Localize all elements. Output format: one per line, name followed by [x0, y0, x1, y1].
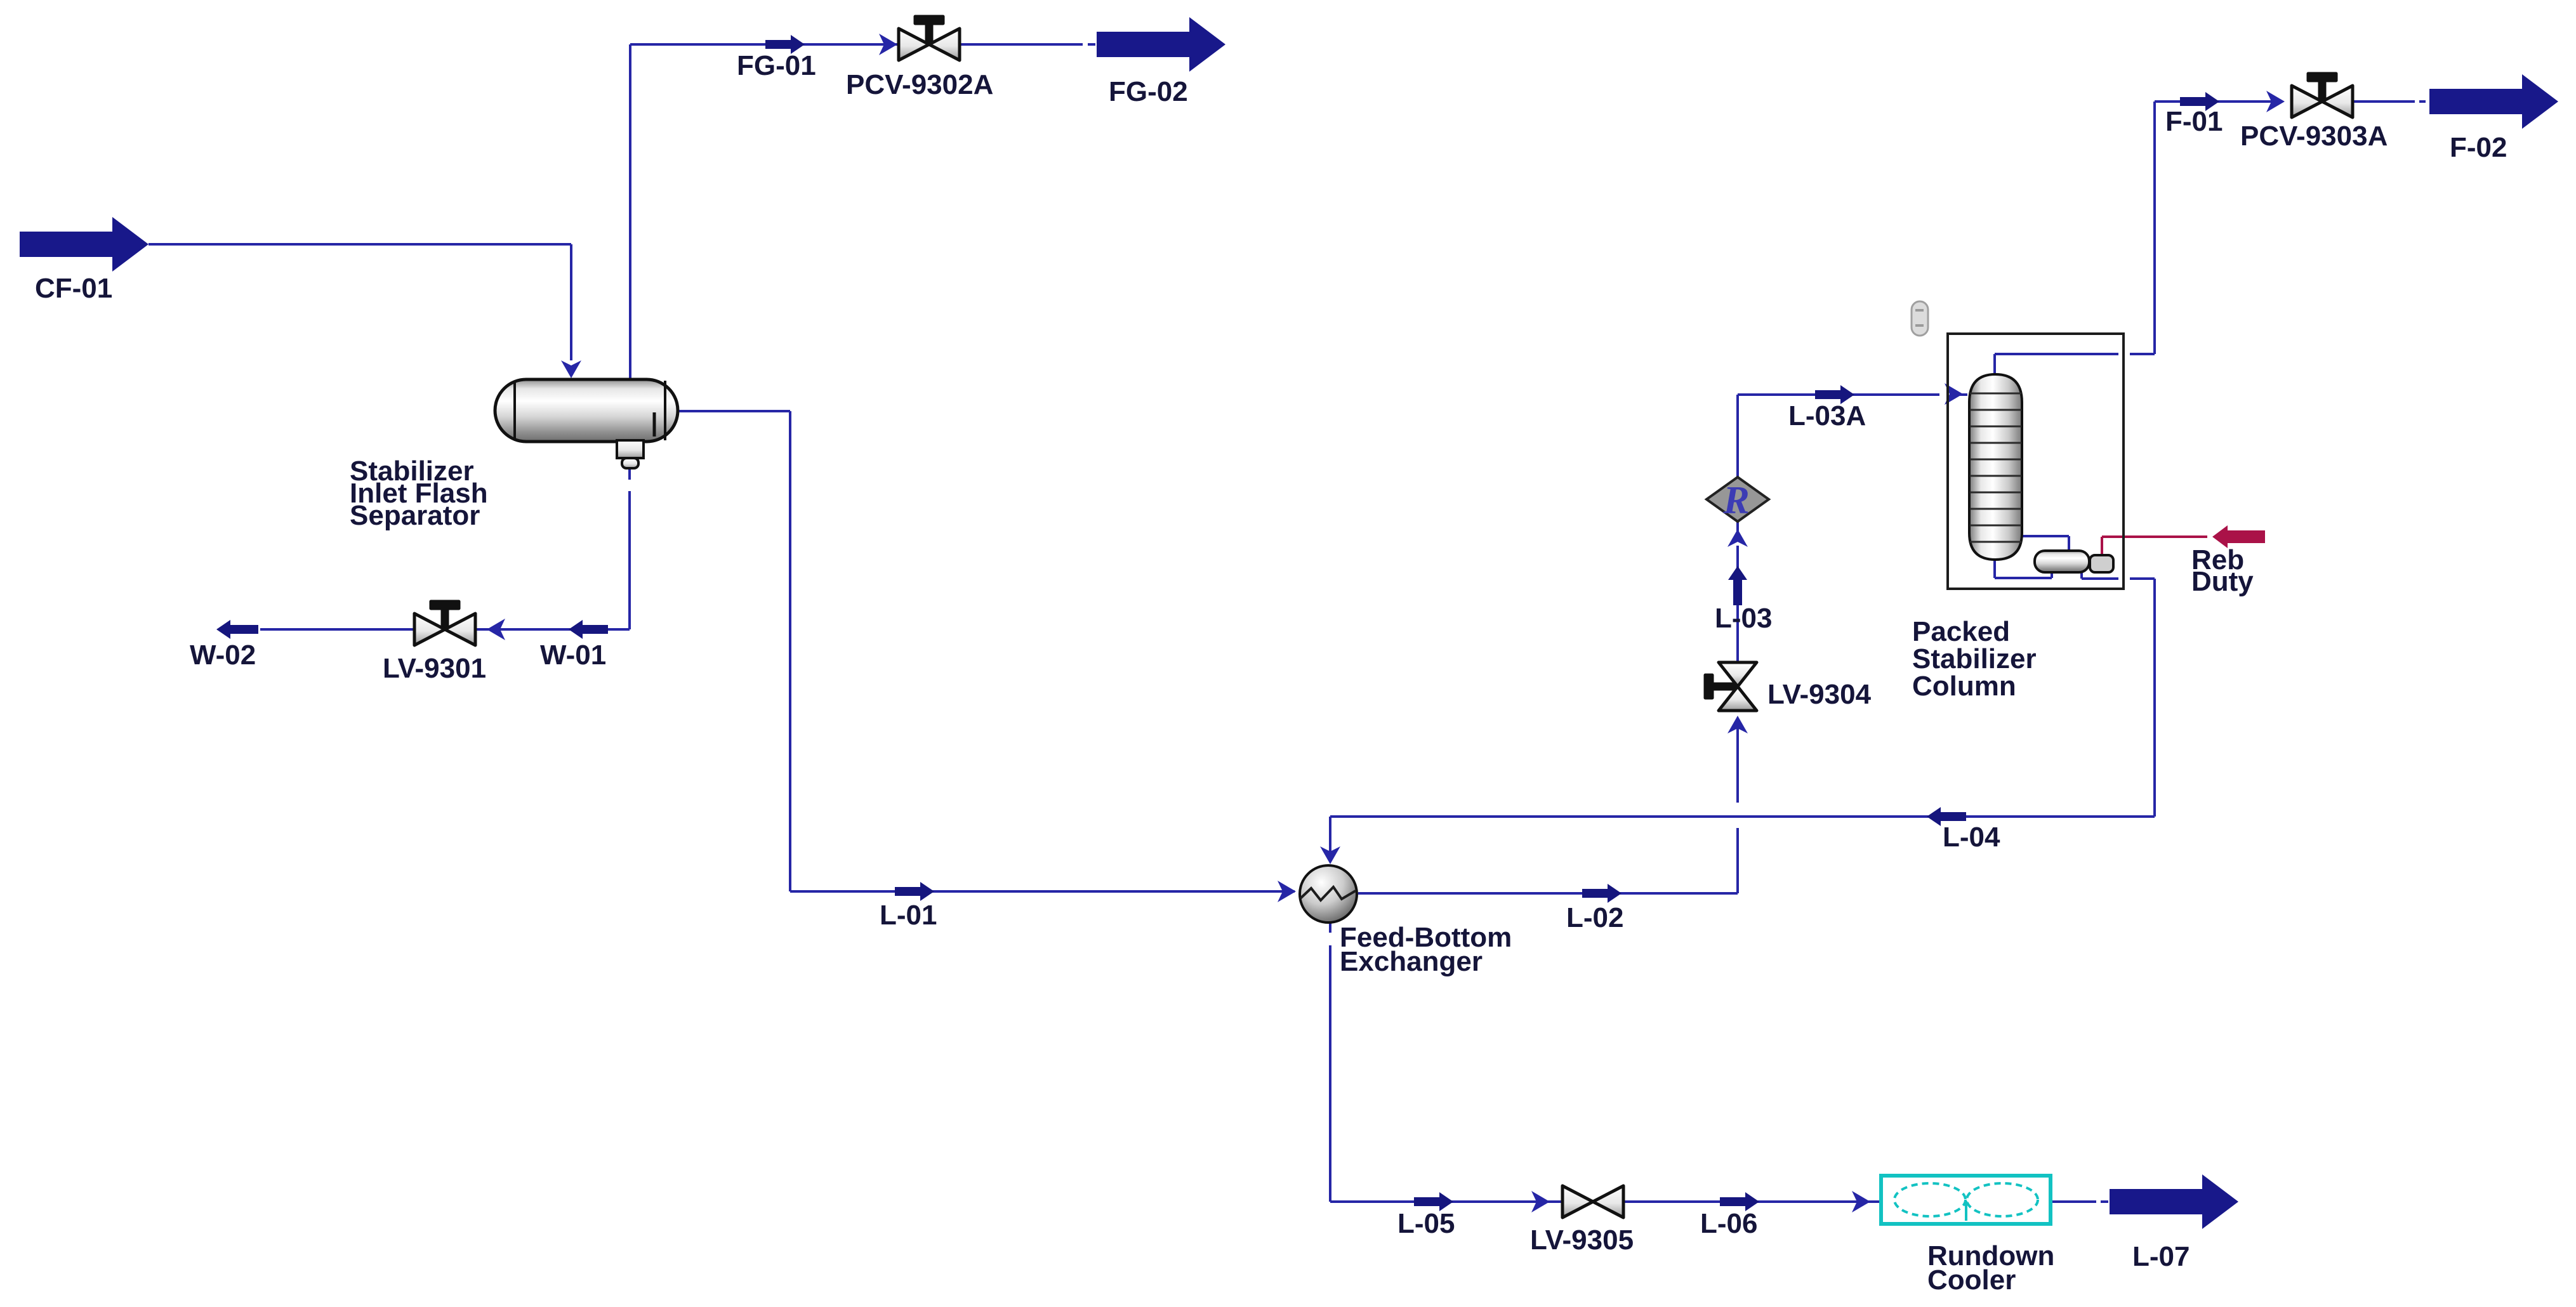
svg-text:Packed: Packed [1912, 616, 2010, 647]
svg-text:PCV-9303A: PCV-9303A [2240, 121, 2388, 152]
svg-text:Stabilizer: Stabilizer [1912, 643, 2037, 674]
svg-text:W-01: W-01 [540, 640, 606, 671]
svg-text:L-01: L-01 [880, 900, 937, 931]
svg-text:Separator: Separator [350, 500, 480, 531]
svg-text:L-02: L-02 [1566, 902, 1623, 933]
svg-text:R: R [1722, 479, 1749, 522]
svg-text:FG-02: FG-02 [1109, 76, 1188, 107]
svg-text:L-03A: L-03A [1788, 400, 1866, 431]
svg-text:CF-01: CF-01 [35, 273, 112, 304]
svg-text:L-07: L-07 [2132, 1241, 2190, 1272]
svg-text:LV-9304: LV-9304 [1767, 679, 1872, 710]
svg-text:L-05: L-05 [1397, 1208, 1455, 1239]
svg-text:LV-9301: LV-9301 [383, 653, 486, 684]
svg-text:PCV-9302A: PCV-9302A [846, 69, 993, 100]
svg-text:Column: Column [1912, 671, 2016, 702]
svg-text:Duty: Duty [2191, 566, 2254, 597]
svg-text:LV-9305: LV-9305 [1530, 1225, 1634, 1256]
svg-text:L-04: L-04 [1943, 822, 2000, 853]
svg-text:FG-01: FG-01 [737, 50, 816, 81]
svg-text:F-02: F-02 [2450, 132, 2507, 163]
svg-text:Exchanger: Exchanger [1340, 946, 1483, 977]
svg-text:W-02: W-02 [190, 640, 256, 671]
svg-text:L-03: L-03 [1715, 603, 1772, 634]
svg-text:Cooler: Cooler [1927, 1264, 2016, 1296]
svg-text:F-01: F-01 [2165, 106, 2223, 137]
svg-text:L-06: L-06 [1700, 1208, 1757, 1239]
